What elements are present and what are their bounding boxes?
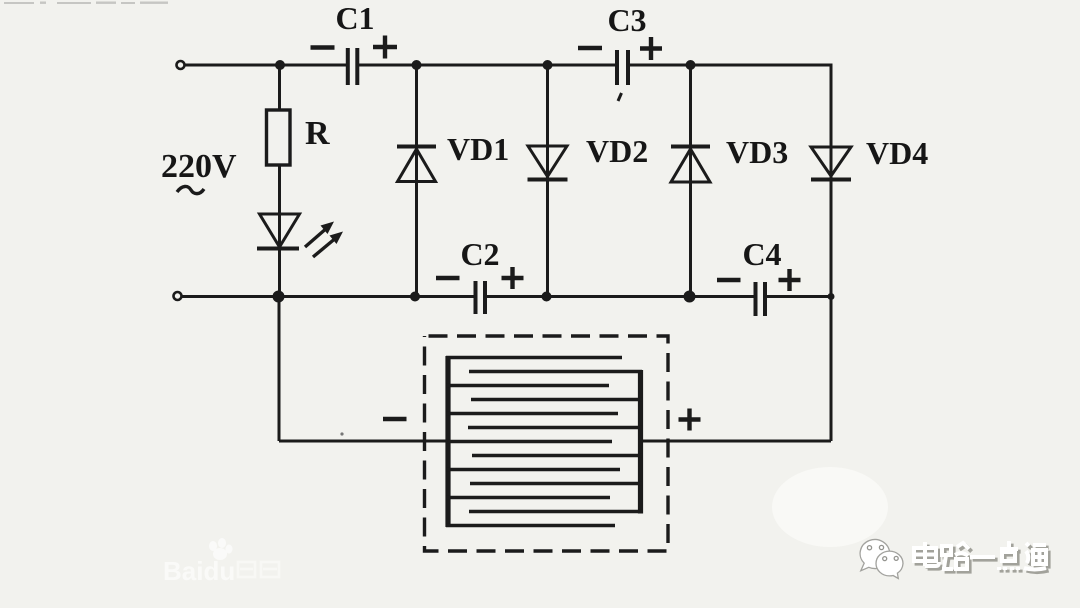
finger 1 left [446, 356, 622, 360]
svg-text:C1: C1 [335, 0, 374, 36]
white patch artifact [772, 467, 888, 547]
diode VD2 [528, 146, 568, 180]
wire: R to LED [278, 165, 281, 249]
shadow 路 [945, 546, 972, 572]
C2 minus sign [436, 276, 460, 280]
junction node top VD2 [543, 60, 553, 70]
junction node bottom right rail [828, 293, 835, 300]
diode VD4 [811, 147, 851, 180]
electrode left bar [445, 356, 450, 527]
AC tilde [177, 186, 204, 193]
resistor R [267, 110, 291, 165]
logo WeChat icon bubble 2 [876, 551, 903, 578]
terminal bottom-left [174, 292, 182, 300]
finger 5 left [446, 412, 618, 416]
junction node top VD3 [686, 60, 696, 70]
C1 plus sign [373, 36, 397, 59]
capacitor C4 [756, 282, 766, 316]
wire: LED to bottom wire [278, 249, 281, 297]
diode VD1 branch wire top [415, 65, 418, 297]
finger 8 right [472, 454, 642, 458]
wire right rail top [830, 64, 833, 442]
electrostatic element dashed enclosure [425, 336, 669, 551]
electrode right bar [638, 370, 643, 514]
wire bottom: C4 right plate to right rail [765, 295, 831, 298]
shadow 点 [1002, 544, 1021, 573]
face 路 [942, 543, 969, 569]
finger 3 left [446, 384, 609, 388]
C2 plus sign [502, 267, 524, 289]
face 一 [970, 555, 995, 559]
Baidu watermark paw [209, 538, 233, 560]
C4 plus sign [779, 269, 801, 291]
capacitor C2 [476, 281, 486, 314]
LED (diode with arrows) [257, 214, 343, 257]
wire bottom: C2 right plate to C4 left plate [485, 295, 756, 298]
finger 4 right [471, 398, 642, 402]
face 通 [1024, 543, 1046, 570]
svg-text:C3: C3 [607, 2, 646, 38]
C4 minus sign [717, 278, 741, 282]
wire: R branch vertical top [278, 65, 281, 110]
svg-text:C4: C4 [742, 236, 781, 272]
C1 minus sign [311, 45, 335, 49]
wire: element plus lead [642, 440, 831, 443]
svg-text:Baidu: Baidu [163, 556, 235, 586]
junction node bottom VD3 [684, 291, 696, 303]
finger 11 left [446, 496, 610, 500]
finger 9 left [446, 468, 620, 472]
finger 13 left [446, 524, 615, 528]
face 电 [914, 542, 939, 566]
wire: left vertical down to element lead [278, 297, 281, 442]
diode VD1 [397, 147, 436, 182]
capacitor C1 [348, 48, 358, 85]
svg-text:VD4: VD4 [866, 135, 928, 171]
wire top: C3 right plate to right corner [628, 64, 833, 67]
junction node top VD1 [412, 60, 422, 70]
finger 2 right [469, 370, 642, 374]
terminal top-left [177, 61, 185, 69]
faint scanning artifacts top edge [4, 2, 168, 5]
wire top: terminal to C1 left plate [185, 64, 348, 67]
diode VD3 branch wire top [689, 65, 692, 297]
element minus sign [383, 417, 407, 421]
diode VD3 [671, 147, 710, 183]
C3 plus sign [640, 37, 662, 60]
wire: element minus lead [279, 440, 447, 443]
face 点 [999, 541, 1018, 570]
junction node top R [275, 60, 285, 70]
logo WeChat icon bubble 1 [860, 540, 890, 571]
junction node bottom LED [273, 291, 285, 303]
junction node bottom VD1 [410, 292, 420, 302]
diode VD2 branch wire top [546, 65, 549, 297]
C3 tick mark [618, 93, 622, 101]
capacitor C3 [617, 50, 628, 85]
svg-text:VD1: VD1 [447, 131, 509, 167]
svg-text:R: R [305, 115, 330, 152]
element electrode combs [446, 356, 642, 527]
svg-text:VD2: VD2 [586, 133, 648, 169]
finger 12 right [469, 510, 642, 514]
C3 minus sign [578, 46, 602, 50]
finger 6 right [468, 426, 642, 430]
svg-text:220V: 220V [161, 148, 237, 185]
svg-text:C2: C2 [460, 236, 499, 272]
wire top: C1 right plate to C3 left plate [357, 64, 617, 67]
wire bottom: terminal to C2 left plate [182, 295, 476, 298]
finger 10 right [470, 482, 642, 486]
finger 7 left [446, 440, 612, 444]
shadow 电 [917, 545, 942, 569]
junction node bottom VD2 [542, 292, 552, 302]
shadow 一 [973, 558, 998, 562]
logo text 电路一点通 (drawn glyphs, gray shadow + white face) [914, 541, 1049, 573]
shadow 通 [1027, 546, 1049, 573]
svg-text:VD3: VD3 [726, 134, 788, 170]
stray speck [340, 432, 343, 435]
element plus sign [679, 409, 701, 431]
